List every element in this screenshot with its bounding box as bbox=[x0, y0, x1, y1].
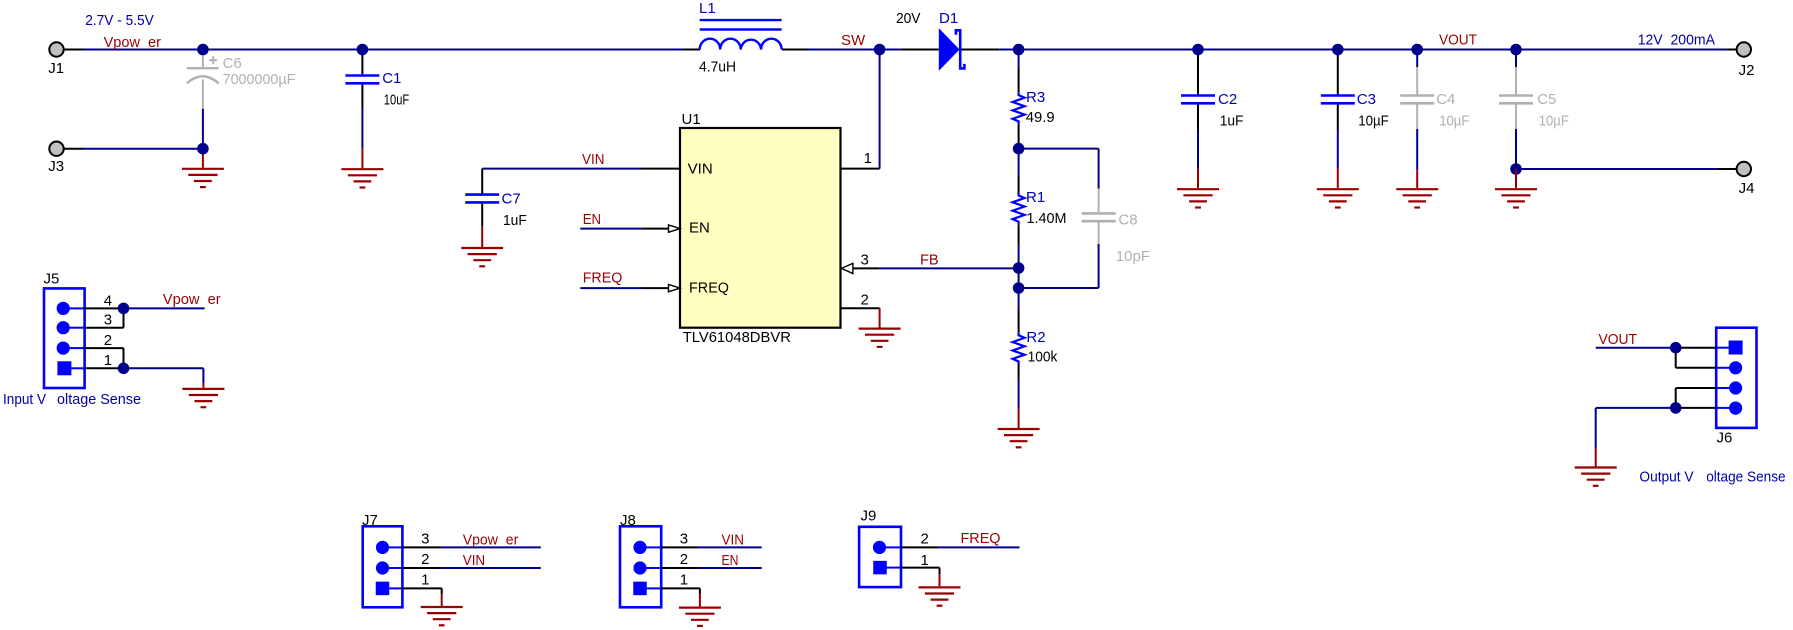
svg-text:VIN: VIN bbox=[722, 531, 745, 548]
svg-text:10pF: 10pF bbox=[1116, 248, 1150, 265]
svg-text:1: 1 bbox=[864, 150, 872, 167]
svg-text:2: 2 bbox=[861, 292, 869, 309]
svg-text:FB: FB bbox=[920, 252, 939, 269]
svg-text:EN: EN bbox=[722, 552, 739, 569]
svg-text:4.7uH: 4.7uH bbox=[699, 58, 736, 75]
svg-text:R3: R3 bbox=[1026, 89, 1045, 106]
svg-text:VIN: VIN bbox=[463, 552, 486, 569]
svg-text:J6: J6 bbox=[1717, 430, 1733, 447]
svg-text:Vpow er: Vpow er bbox=[463, 531, 519, 548]
svg-text:1: 1 bbox=[104, 352, 112, 369]
svg-text:2: 2 bbox=[680, 551, 688, 568]
svg-text:EN: EN bbox=[583, 211, 601, 228]
svg-text:Vpow er: Vpow er bbox=[104, 34, 161, 51]
svg-text:10µF: 10µF bbox=[1439, 113, 1469, 130]
svg-text:C8: C8 bbox=[1118, 212, 1137, 229]
svg-text:100k: 100k bbox=[1028, 349, 1058, 366]
svg-text:J7: J7 bbox=[362, 512, 378, 529]
svg-text:Output V: Output V bbox=[1639, 469, 1693, 486]
svg-text:VIN: VIN bbox=[688, 161, 713, 178]
svg-text:4: 4 bbox=[104, 292, 112, 309]
svg-text:2: 2 bbox=[104, 332, 112, 349]
svg-text:C6: C6 bbox=[223, 55, 242, 72]
svg-text:D1: D1 bbox=[939, 10, 958, 27]
svg-text:C2: C2 bbox=[1218, 91, 1237, 108]
svg-text:7000000µF: 7000000µF bbox=[223, 71, 296, 88]
svg-text:C4: C4 bbox=[1436, 91, 1455, 108]
svg-text:Input V: Input V bbox=[3, 391, 46, 408]
svg-text:J1: J1 bbox=[48, 60, 64, 77]
svg-text:J3: J3 bbox=[48, 158, 64, 175]
svg-text:3: 3 bbox=[680, 531, 688, 548]
svg-text:C1: C1 bbox=[382, 70, 401, 87]
svg-text:12V 200mA: 12V 200mA bbox=[1638, 31, 1715, 48]
svg-text:1.40M: 1.40M bbox=[1027, 210, 1067, 227]
svg-text:20V: 20V bbox=[896, 10, 921, 27]
svg-text:2.7V - 5.5V: 2.7V - 5.5V bbox=[85, 12, 154, 29]
svg-text:J8: J8 bbox=[620, 512, 636, 529]
svg-text:3: 3 bbox=[421, 531, 429, 548]
svg-text:J2: J2 bbox=[1739, 62, 1755, 79]
svg-text:VIN: VIN bbox=[582, 151, 605, 168]
svg-text:49.9: 49.9 bbox=[1026, 109, 1055, 126]
svg-text:2: 2 bbox=[421, 551, 429, 568]
svg-text:C3: C3 bbox=[1357, 91, 1376, 108]
svg-text:1: 1 bbox=[421, 571, 429, 588]
svg-text:U1: U1 bbox=[682, 111, 701, 128]
svg-text:3: 3 bbox=[861, 252, 869, 269]
svg-text:oltage Sense: oltage Sense bbox=[57, 391, 141, 408]
svg-text:L1: L1 bbox=[699, 0, 716, 17]
svg-text:FREQ: FREQ bbox=[689, 279, 729, 296]
svg-text:Vpow er: Vpow er bbox=[163, 291, 221, 308]
svg-text:oltage Sense: oltage Sense bbox=[1706, 469, 1785, 486]
svg-text:C5: C5 bbox=[1537, 91, 1556, 108]
svg-text:1uF: 1uF bbox=[503, 212, 527, 229]
svg-text:10µF: 10µF bbox=[1539, 113, 1569, 130]
svg-text:SW: SW bbox=[841, 32, 866, 49]
svg-text:J5: J5 bbox=[44, 271, 60, 288]
svg-text:R1: R1 bbox=[1026, 189, 1045, 206]
svg-text:FREQ: FREQ bbox=[583, 270, 623, 287]
svg-text:FREQ: FREQ bbox=[961, 530, 1001, 547]
svg-text:VOUT: VOUT bbox=[1439, 31, 1477, 48]
svg-text:J4: J4 bbox=[1739, 180, 1755, 197]
svg-text:EN: EN bbox=[689, 220, 710, 237]
svg-text:TLV61048DBVR: TLV61048DBVR bbox=[683, 329, 791, 346]
svg-text:1: 1 bbox=[921, 552, 929, 569]
svg-text:1uF: 1uF bbox=[1220, 113, 1244, 130]
svg-text:C7: C7 bbox=[502, 191, 521, 208]
svg-text:10uF: 10uF bbox=[384, 92, 409, 109]
svg-text:3: 3 bbox=[104, 312, 112, 329]
svg-text:J9: J9 bbox=[861, 507, 877, 524]
svg-text:VOUT: VOUT bbox=[1599, 331, 1638, 348]
svg-text:1: 1 bbox=[680, 571, 688, 588]
svg-text:10µF: 10µF bbox=[1358, 113, 1389, 130]
svg-text:R2: R2 bbox=[1026, 329, 1045, 346]
svg-text:2: 2 bbox=[921, 530, 929, 547]
